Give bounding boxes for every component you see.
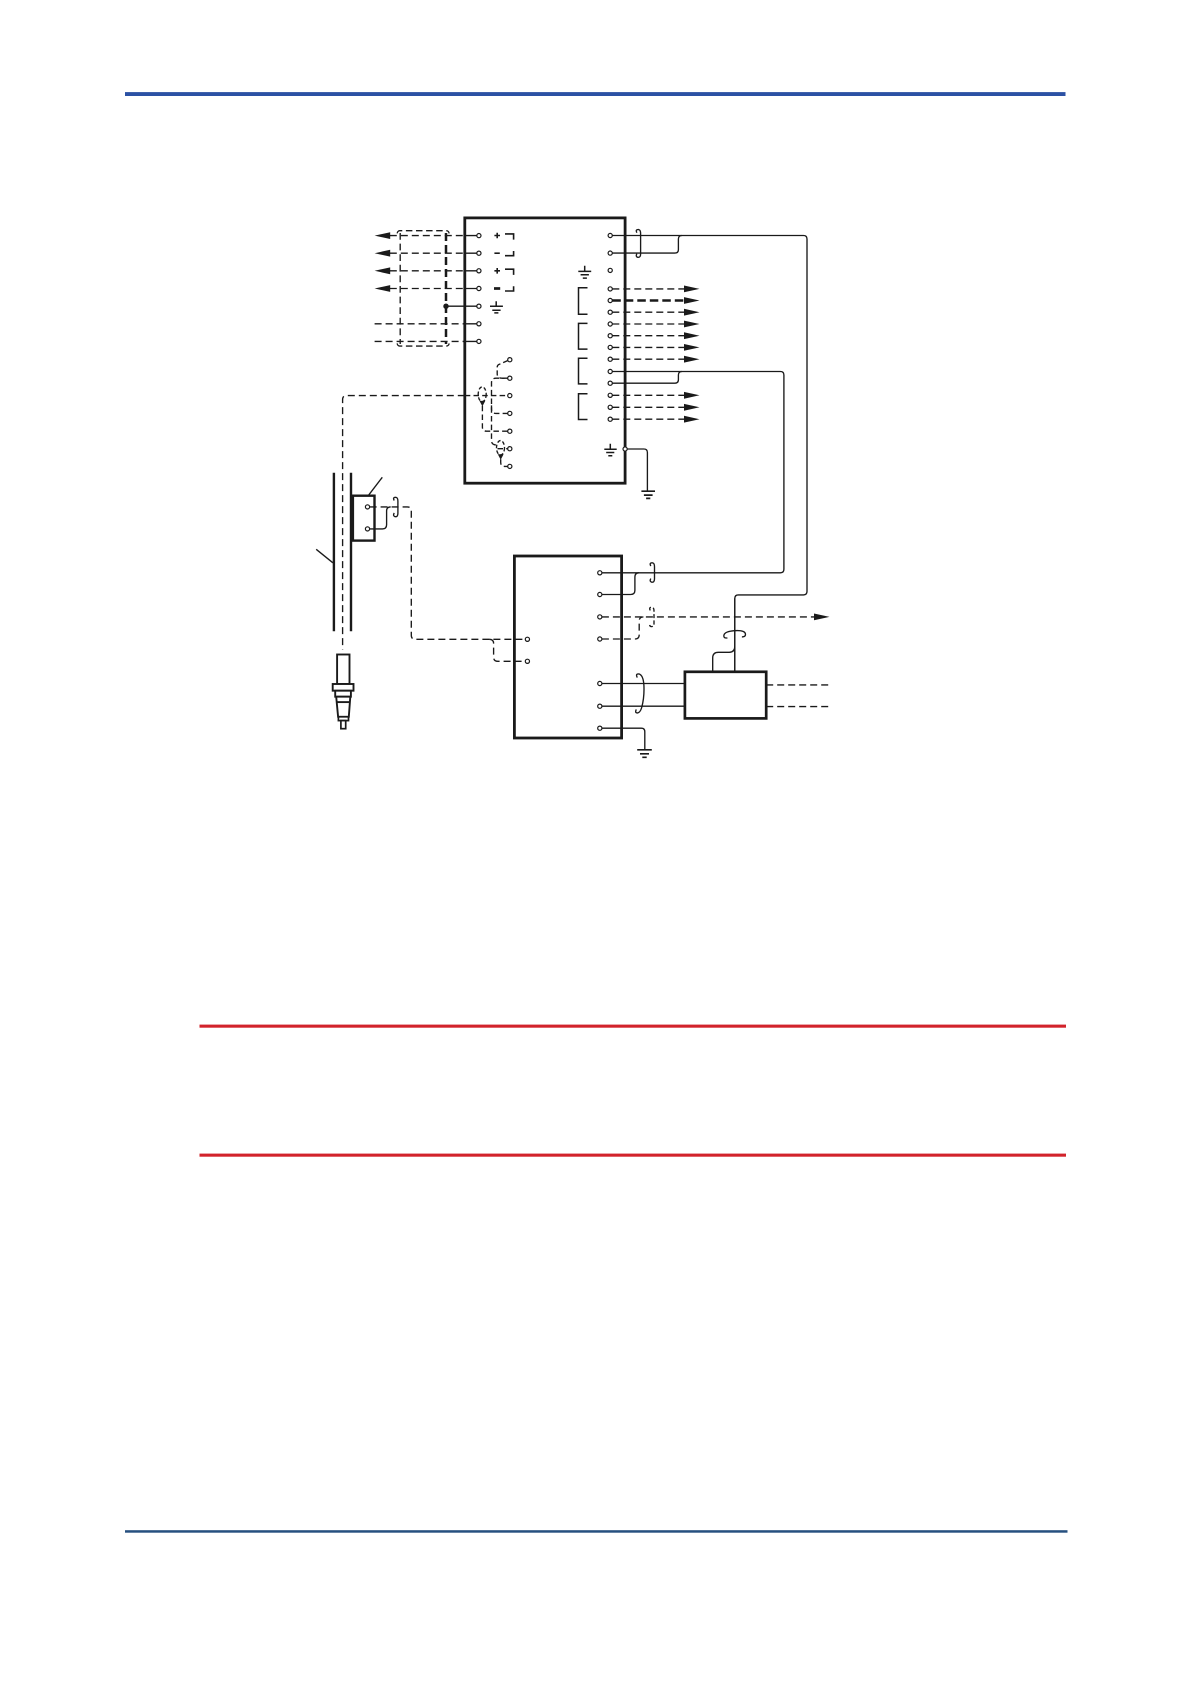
shield drain arrow at t6 loop <box>498 454 504 460</box>
jumper wire t1-t2 (dashed) <box>497 361 508 379</box>
terminal circle R1 <box>608 233 612 237</box>
arrow L3 <box>375 267 391 274</box>
arrow R4 <box>684 286 700 293</box>
sensor head box <box>353 496 375 541</box>
wire L3 (dashed, to left arrow) <box>390 270 465 272</box>
terminal circle R5 <box>608 298 612 302</box>
wire L5 (solid, shield drain to ground terminal) <box>446 305 477 307</box>
wire L7 (dashed spare) <box>375 340 465 342</box>
output wire R14 (dashed, arrow right) <box>612 406 684 408</box>
polarity label - (row2) <box>494 252 499 254</box>
arrow L1 <box>375 232 391 239</box>
wire T2 merge into T1 <box>602 573 639 595</box>
terminal circle L6 <box>477 322 481 326</box>
arrow R8 <box>684 332 700 339</box>
detector input terminal t5 <box>508 429 512 433</box>
warning rule lower (red) <box>200 1154 1067 1157</box>
probe neck <box>335 691 351 697</box>
wire T6 to converter box U3 <box>602 705 685 707</box>
twisted pair marker at T5/T6 <box>636 674 644 713</box>
earth ground symbol (below U2) <box>637 750 652 758</box>
pair bracket row1 <box>505 234 514 240</box>
detector input terminal t3 <box>508 394 512 398</box>
wire T7 to earth <box>602 728 645 749</box>
wire into t3 (dashed, from field cable) <box>465 395 508 397</box>
mounting plate left wall <box>333 473 335 632</box>
pair bracket row3 <box>505 269 514 275</box>
output wire R7 (dashed, arrow right) <box>612 323 684 325</box>
branch wire into U3 top left <box>713 646 735 672</box>
terminal circle L1 <box>477 234 481 238</box>
probe tip <box>341 721 346 729</box>
terminal circle A (U2 left) <box>525 637 529 641</box>
terminal circle T5 (U2 right) <box>598 681 602 685</box>
detector input terminal t4 <box>508 411 512 415</box>
wire T5 to converter box U3 <box>602 683 685 685</box>
shield drain arrow at t3 loop <box>480 401 486 407</box>
terminal circle R13 <box>608 393 612 397</box>
arrow L2 <box>375 250 391 257</box>
terminal circle T1 (U2 right) <box>598 571 602 575</box>
output wire R8 (dashed, arrow right) <box>612 335 684 337</box>
branch wire bus to t4 (dashed) <box>492 405 508 413</box>
output group bracket 1 (R4-R6) <box>579 288 588 315</box>
arrow R6 <box>684 309 700 316</box>
terminal circle L3 <box>477 269 481 273</box>
detector rod centerline (dashed) + field cable to U1 t3 <box>343 396 465 650</box>
terminal circle R6 <box>608 310 612 314</box>
twisted pair marker at sensor cable <box>394 497 398 516</box>
terminal circle T7 (U2 right) <box>598 726 602 730</box>
probe step <box>338 717 348 721</box>
terminal circle T3 (U2 right) <box>598 615 602 619</box>
shield drain conductor (thick dashed) <box>445 233 448 344</box>
terminal circle L4 <box>477 286 481 290</box>
probe body (upper cylinder) <box>337 655 349 685</box>
detector input terminal t7 <box>508 464 512 468</box>
pair bracket row2 <box>505 251 514 256</box>
output wire R13 (dashed, arrow right) <box>612 394 684 396</box>
terminal circle L7 <box>477 339 481 343</box>
output group bracket 4 (R13-R15) <box>579 394 588 420</box>
arrow T3 <box>814 614 830 621</box>
terminal circle L2 <box>477 251 481 255</box>
detector input terminal t6 <box>508 447 512 451</box>
terminal circle R7 <box>608 322 612 326</box>
wire L6 (dashed spare) <box>375 323 465 325</box>
terminal circle R14 <box>608 405 612 409</box>
terminal circle R8 <box>608 334 612 338</box>
mounting plate right wall <box>350 473 352 632</box>
wire bus into t6 through shield loop (dashed) <box>498 448 508 450</box>
plate leader line <box>316 549 333 563</box>
output wire R15 (dashed, arrow right) <box>612 418 684 420</box>
terminal circle R12 <box>608 381 612 385</box>
cable shield loop symbol at t3 <box>478 387 486 402</box>
cable shield loop symbol at t6 <box>497 441 505 455</box>
ground symbol inside U1 (top right) <box>578 266 591 278</box>
shield drain wire to t7 (dashed) <box>501 459 508 466</box>
internal bus wire from t2 down to t6 (dashed) <box>492 378 508 445</box>
footer rule (blue) <box>125 1530 1068 1533</box>
sensor terminal S1 <box>365 505 369 509</box>
earth ground symbol (below U1) <box>641 491 655 498</box>
wire L2 (dashed, to left arrow) <box>390 252 465 254</box>
detector input terminal t1 <box>508 358 512 362</box>
trunk wire R1 to node under (solid) <box>612 236 807 672</box>
arrow R14 <box>684 404 700 411</box>
ground wire from R16 <box>627 449 647 491</box>
terminal circle T6 (U2 right) <box>598 704 602 708</box>
output wire R6 (dashed, arrow right) <box>612 311 684 313</box>
arrow L4 <box>375 285 391 292</box>
terminal circle R9 <box>608 345 612 349</box>
terminal circle R11 <box>608 369 612 373</box>
ground symbol inside U1 (bottom) <box>604 444 616 456</box>
shield drain wire to t5 (dashed) <box>482 406 507 431</box>
output wire R5 (thick dashed, arrow right) <box>612 299 684 301</box>
terminal circle B (U2 left) <box>525 659 529 663</box>
signal converter box U3 (right small) <box>685 672 766 719</box>
polarity label + (row3) <box>494 268 500 274</box>
trunk wire R11 to lower box T1 (solid) <box>602 372 784 573</box>
arrow R10 <box>684 356 700 363</box>
junction dot on shield drain <box>443 304 448 309</box>
sensor leader line <box>368 477 382 495</box>
terminal stubs L1-L7 <box>465 236 477 342</box>
arrow R15 <box>684 416 700 423</box>
wire L4 (dashed, to left arrow) <box>390 288 465 290</box>
ground terminal R16 on box edge <box>623 447 627 451</box>
probe body seam <box>337 701 350 703</box>
arrow R9 <box>684 344 700 351</box>
polarity label + (row1) <box>494 233 500 239</box>
terminal circle T2 (U2 right) <box>598 592 602 596</box>
output group bracket 2 (R7-R9) <box>579 323 588 349</box>
probe tapered body <box>336 697 350 717</box>
output wire U3-a (dashed) <box>766 684 829 686</box>
merge wire R2 into R1 trunk <box>612 236 682 254</box>
twisted pair marker at T3/T4 <box>650 607 654 626</box>
pair bracket row4 <box>505 286 514 291</box>
sensor wire S2 merge into S1 <box>370 507 391 529</box>
merge wire R12 into R11 trunk <box>612 372 682 384</box>
wire L1 (dashed, to left arrow) <box>390 235 465 237</box>
output group bracket 3 (R10-R12) <box>579 358 588 384</box>
arrow R5 <box>684 297 700 304</box>
converter box U1 (upper) <box>465 218 625 483</box>
branch wire to terminal B (dashed) <box>489 639 525 661</box>
shield bundle boundary (dashed, left of U1) <box>397 231 449 346</box>
wire T4 merge into T3 (dashed) <box>602 617 644 639</box>
output wire R10 (dashed, arrow right) <box>612 358 684 360</box>
terminal circle R15 <box>608 417 612 421</box>
wire T3 (dashed) to remote arrow <box>602 616 815 618</box>
arrow R13 <box>684 392 700 399</box>
twist marker on vertical trunk <box>724 631 746 638</box>
terminal circle R10 <box>608 357 612 361</box>
terminal circle R4 <box>608 287 612 291</box>
sensor terminal S2 <box>365 527 369 531</box>
probe hex collar <box>333 684 354 691</box>
terminal circle L5 <box>477 304 481 308</box>
supply wire into U3 top (from trunk) <box>734 598 736 671</box>
terminal circle R3 (unused) <box>608 268 612 272</box>
output wire R9 (dashed, arrow right) <box>612 346 684 348</box>
output wire U3-b (dashed) <box>766 706 829 708</box>
output wire R4 (dashed, arrow right) <box>612 288 684 290</box>
twisted pair marker at R1/R2 <box>636 230 640 258</box>
header rule (blue) <box>125 92 1066 96</box>
terminal circle R2 <box>608 251 612 255</box>
sensor wire S1 (dashed) to U2 inputs A/B <box>370 507 526 639</box>
polarity label - bold (row4) <box>494 287 500 290</box>
ground symbol at L5 <box>490 301 503 313</box>
twisted pair marker at T1/T2 <box>650 563 654 582</box>
warning rule upper (red) <box>200 1025 1067 1028</box>
detector input terminal t2 <box>508 376 512 380</box>
terminal circle T4 (U2 right) <box>598 637 602 641</box>
arrow R7 <box>684 321 700 328</box>
distributor box U2 (lower) <box>514 556 621 738</box>
